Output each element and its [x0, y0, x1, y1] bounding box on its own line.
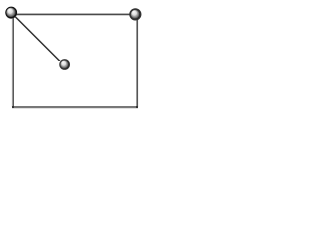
frame bottom edge	[12, 107, 138, 109]
wire: edge from node A to node C, right halo	[16, 16, 61, 61]
node C (middle ball)	[60, 60, 70, 70]
frame corner junction bottom-left	[12, 106, 14, 108]
frame corner junction bottom-right	[136, 106, 138, 108]
frame left edge	[12, 14, 14, 107]
frame top edge	[12, 14, 138, 16]
node B (top-right ball) shadow	[130, 9, 141, 20]
node A (top-left ball)	[6, 7, 17, 18]
node B (top-right ball)	[130, 9, 141, 20]
wire: edge from node A to node C, left halo	[13, 16, 58, 61]
frame right edge	[137, 14, 139, 107]
wire: edge from node A to node C, core	[14, 16, 60, 61]
background	[0, 0, 148, 112]
node A (top-left ball) shadow	[6, 7, 17, 18]
